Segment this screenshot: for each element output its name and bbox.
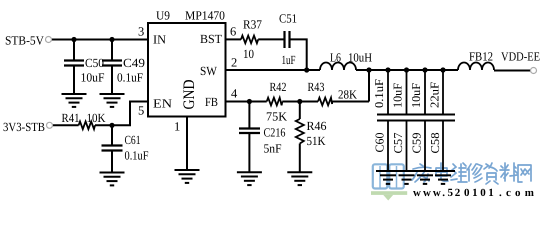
svg-text:C57: C57 — [391, 133, 405, 154]
svg-text:10uF: 10uF — [81, 71, 105, 85]
wire BST stub — [226, 38, 242, 40]
svg-text:0.1uF: 0.1uF — [117, 71, 143, 85]
wire FB line — [226, 101, 267, 103]
svg-text:C50: C50 — [85, 56, 104, 70]
ground for C49 — [100, 94, 125, 107]
svg-text:28K: 28K — [338, 88, 357, 102]
wire R42 to R43 — [282, 101, 318, 103]
svg-text:www.: www. — [413, 187, 447, 199]
capacitor C58 lead — [442, 70, 444, 171]
wire pin1 to ground — [186, 117, 188, 171]
svg-text:C60: C60 — [372, 133, 386, 153]
svg-text:C58: C58 — [428, 133, 442, 154]
svg-text:FB12: FB12 — [469, 50, 493, 64]
svg-text:R42: R42 — [270, 80, 287, 94]
svg-text:R43: R43 — [308, 80, 325, 94]
svg-text:10K: 10K — [87, 111, 106, 125]
capacitor C60 lead — [387, 70, 389, 171]
node junction caps rail — [385, 67, 445, 72]
capacitor C59 lead — [424, 70, 426, 171]
ground for C60 — [376, 171, 400, 184]
wire SW rail — [226, 69, 321, 71]
resistor R42 — [266, 80, 287, 124]
node junction dot FB line R46 — [297, 99, 302, 104]
svg-text:0.1uF: 0.1uF — [372, 79, 386, 108]
svg-text:IN: IN — [153, 33, 166, 47]
wire R41 to EN pin — [95, 102, 148, 126]
svg-text:6: 6 — [230, 25, 236, 39]
svg-text:C61: C61 — [125, 133, 141, 147]
terminal 3V3-STB — [3, 120, 53, 134]
svg-text:L6: L6 — [330, 51, 341, 65]
capacitor C216 — [239, 102, 286, 173]
svg-text:51K: 51K — [307, 134, 326, 148]
svg-text:C49: C49 — [123, 56, 145, 70]
svg-text:VDD-EE: VDD-EE — [501, 50, 540, 64]
ground for C59 — [413, 171, 437, 184]
svg-text:MP1470: MP1470 — [185, 9, 225, 23]
ground for pin 1 — [175, 170, 200, 183]
wire EN input — [53, 124, 79, 126]
svg-text:0101: 0101 — [464, 187, 496, 199]
svg-text:R37: R37 — [243, 18, 262, 32]
capacitor C49 — [102, 40, 145, 95]
capacitor C51 — [279, 12, 297, 68]
svg-text:1uF: 1uF — [282, 53, 296, 67]
svg-text:5nF: 5nF — [264, 142, 282, 156]
node junction L6/R43 — [366, 67, 371, 72]
svg-text:SW: SW — [200, 64, 217, 78]
inductor FB12 (ferrite bead) — [458, 50, 494, 71]
resistor R37 — [241, 18, 262, 62]
svg-text:3V3-STB: 3V3-STB — [3, 120, 45, 134]
svg-text:0.1uF: 0.1uF — [125, 149, 149, 163]
wire FB12 to VDD-EE — [494, 70, 531, 72]
watermark url www.520101.com — [413, 187, 538, 199]
svg-text:10: 10 — [243, 47, 254, 61]
node junction C51/SW — [304, 67, 309, 72]
svg-text:52: 52 — [448, 187, 463, 199]
capacitor C57 lead — [406, 70, 408, 171]
wire R43 top connection — [368, 70, 370, 102]
svg-text:R41: R41 — [62, 111, 80, 125]
ground for C216 — [237, 172, 262, 185]
resistor R41 — [62, 111, 106, 129]
svg-text:C51: C51 — [279, 12, 297, 26]
node junction dot FB line C216 — [247, 99, 252, 104]
ground for R46 — [287, 172, 312, 185]
svg-text:C216: C216 — [264, 126, 286, 140]
svg-text:R46: R46 — [307, 119, 327, 133]
wire C51 right branch — [290, 39, 307, 70]
ground for C50 — [62, 94, 87, 107]
svg-text:2: 2 — [231, 56, 237, 70]
svg-text:10uH: 10uH — [348, 51, 372, 65]
ground for C58 — [431, 171, 455, 184]
svg-text:75K: 75K — [266, 110, 287, 124]
watermark logo book — [371, 164, 407, 200]
ground for C57 — [395, 171, 419, 184]
node junction dots input line — [71, 37, 114, 42]
svg-text:22uF: 22uF — [428, 82, 442, 108]
IC U9 MP1470 — [148, 9, 226, 117]
svg-text:3: 3 — [138, 25, 144, 39]
svg-text:1: 1 — [174, 120, 180, 134]
svg-text:10uF: 10uF — [391, 83, 405, 108]
svg-text:FB: FB — [205, 95, 218, 109]
svg-text:5: 5 — [138, 104, 144, 118]
watermark text 家电维修资料网 — [412, 163, 531, 184]
svg-text:EN: EN — [153, 97, 172, 111]
svg-text:.com: .com — [499, 187, 538, 199]
wire R37 to C51 — [258, 38, 284, 40]
node junction R41/C61 — [109, 123, 114, 128]
resistor R46 — [296, 102, 327, 173]
svg-text:U9: U9 — [156, 9, 170, 23]
inductor L6 — [320, 51, 372, 71]
capacitor bank plates — [377, 115, 455, 121]
svg-text:STB-5V: STB-5V — [5, 33, 44, 47]
svg-text:10uF: 10uF — [409, 83, 423, 108]
terminal VDD-EE — [501, 50, 540, 74]
wire IN line — [52, 39, 149, 41]
terminal STB-5V — [5, 33, 52, 47]
svg-text:4: 4 — [231, 87, 238, 101]
svg-text:GND: GND — [181, 80, 198, 110]
wire R43 to corner — [332, 101, 369, 103]
wire L6 to FB12 rail — [356, 69, 458, 71]
svg-text:C59: C59 — [409, 133, 423, 154]
capacitor C61 — [102, 125, 149, 172]
resistor R43 — [308, 80, 358, 105]
capacitor C50 — [64, 40, 105, 95]
svg-text:BST: BST — [200, 32, 222, 46]
ground for C61 — [100, 173, 125, 186]
